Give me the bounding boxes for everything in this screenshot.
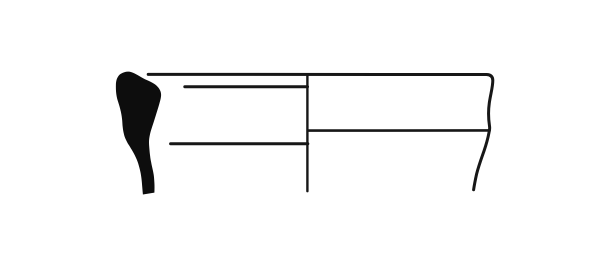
section break vertical line — [306, 74, 308, 191]
left interior line — [171, 142, 308, 145]
interior rim line — [185, 85, 308, 88]
filled section profile — [116, 72, 161, 195]
rim top line and right break edge — [148, 74, 493, 189]
exterior carination line — [308, 129, 489, 132]
